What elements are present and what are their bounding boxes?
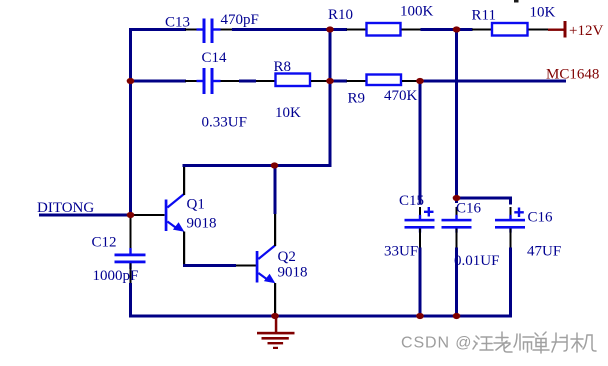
svg-text:10K: 10K bbox=[275, 105, 301, 121]
label 470pF bbox=[221, 12, 259, 28]
wire Q2 emitter pin bbox=[274, 283, 276, 315]
wire MC1648 net navy segment bbox=[417, 80, 566, 83]
wire collector rail H3 bbox=[183, 164, 332, 167]
wire top rail mid navy segment bbox=[232, 28, 347, 31]
label 10K of R11 bbox=[530, 5, 556, 21]
wire V5 vertical upper bbox=[509, 197, 512, 205]
junction dot V3-H1 bbox=[453, 26, 461, 32]
capacitor C14 bbox=[197, 68, 221, 94]
wire C13 right pin bbox=[221, 29, 233, 31]
wire Q1 base pin bbox=[132, 214, 165, 216]
wire V4 vertical lower bbox=[419, 248, 422, 318]
wire Q2 collector navy segment bbox=[274, 166, 277, 214]
wire top rail left navy segment bbox=[129, 28, 186, 31]
label MC1648 bbox=[546, 67, 599, 83]
wire bottom bus bbox=[129, 315, 512, 318]
label R8 bbox=[274, 59, 292, 75]
transistor Q1 bbox=[165, 194, 185, 232]
wire C13 left pin bbox=[185, 29, 197, 31]
svg-text:CSDN @: CSDN @ bbox=[401, 335, 472, 352]
wire C15 top pin bbox=[419, 207, 421, 216]
svg-text:10K: 10K bbox=[530, 5, 556, 21]
junction dot Q2 collector rail bbox=[271, 162, 279, 168]
svg-text:470K: 470K bbox=[384, 88, 418, 104]
junction dot bus-V3 bbox=[453, 313, 461, 319]
label C15 bbox=[399, 193, 424, 209]
label C16 of 0.01UF bbox=[456, 201, 482, 217]
svg-text:0.33UF: 0.33UF bbox=[202, 115, 247, 131]
svg-text:47UF: 47UF bbox=[527, 244, 561, 260]
wire top rail right navy segment bbox=[421, 28, 473, 31]
label 0.01UF bbox=[454, 253, 499, 269]
wire second rail left navy segment bbox=[129, 80, 186, 83]
junction dot R9-V4 bbox=[416, 78, 424, 84]
wire C12 top pin bbox=[130, 216, 132, 254]
capacitor C12 bbox=[115, 248, 146, 269]
resistor R8 bbox=[276, 74, 311, 87]
wire V3 vertical lower bbox=[455, 248, 458, 318]
wire emitter to Q2 base navy bbox=[183, 264, 236, 267]
wire R8 left pin bbox=[256, 80, 275, 82]
wire R11 right pin bbox=[529, 29, 549, 31]
resistor R11 bbox=[492, 23, 528, 36]
label 33UF bbox=[384, 244, 418, 260]
svg-text:R11: R11 bbox=[472, 8, 496, 24]
wire C12 bottom pin bbox=[130, 263, 132, 283]
resistor R9 bbox=[367, 75, 402, 86]
wire DITONG net bbox=[39, 214, 130, 217]
wire R11 left pin bbox=[472, 29, 492, 31]
junction dot V1-DITONG bbox=[127, 212, 135, 218]
wire second rail navy segment b bbox=[327, 80, 347, 83]
wire V5 vertical lower bbox=[509, 248, 512, 318]
junction dot bus-V4 bbox=[416, 313, 424, 319]
svg-text:MC1648: MC1648 bbox=[546, 67, 599, 83]
svg-text:C16: C16 bbox=[456, 201, 482, 217]
wire Q2 collector pin bbox=[274, 214, 276, 246]
svg-text:+12V: +12V bbox=[569, 23, 603, 39]
label 100K bbox=[400, 4, 434, 20]
junction dot bus-Q2 emitter bbox=[271, 313, 279, 319]
label R9 bbox=[348, 91, 366, 107]
svg-text:33UF: 33UF bbox=[384, 244, 418, 260]
label R10 bbox=[328, 7, 353, 23]
label Q1 bbox=[187, 197, 205, 213]
capacitor C16 47UF bbox=[495, 208, 525, 233]
wire Q1 collector pin bbox=[183, 167, 185, 195]
resistor R10 bbox=[367, 23, 401, 36]
junction dot V2-H2 bbox=[326, 78, 334, 84]
wire C15 bottom pin bbox=[419, 229, 421, 248]
wire Q2 base pin bbox=[236, 265, 256, 267]
capacitor C15 bbox=[405, 207, 435, 233]
wire R10 right pin bbox=[402, 29, 421, 31]
wire C16 top pin bbox=[456, 207, 458, 216]
svg-text:C13: C13 bbox=[165, 15, 190, 31]
svg-text:R9: R9 bbox=[348, 91, 366, 107]
wire V3 vertical upper bbox=[455, 28, 458, 203]
wire Q1 emitter pin bbox=[183, 232, 185, 267]
wire C16b top pin bbox=[510, 207, 512, 216]
wire R9 right pin bbox=[402, 80, 417, 82]
svg-text:100K: 100K bbox=[400, 4, 434, 20]
svg-text:C14: C14 bbox=[202, 50, 228, 66]
junction dot V1-H2 bbox=[127, 78, 135, 84]
label C16 of 47UF bbox=[528, 210, 554, 226]
label C12 bbox=[92, 235, 117, 251]
wire C16 bottom pin bbox=[456, 229, 458, 248]
label DITONG bbox=[37, 200, 94, 216]
power +12V symbol bbox=[548, 21, 567, 38]
svg-text:9018: 9018 bbox=[278, 265, 308, 281]
label Q2 bbox=[278, 249, 296, 265]
label C13 bbox=[165, 15, 190, 31]
label C14 bbox=[202, 50, 228, 66]
label 47UF bbox=[527, 244, 561, 260]
wire V2 vertical from top rail bbox=[329, 28, 332, 167]
junction dot V2-H1 bbox=[326, 26, 334, 32]
svg-text:C16: C16 bbox=[528, 210, 554, 226]
ground bbox=[257, 318, 295, 350]
watermark CSDN bbox=[401, 335, 472, 352]
wire C14 left pin bbox=[185, 80, 197, 82]
svg-text:R8: R8 bbox=[274, 59, 292, 75]
label R11 bbox=[472, 8, 496, 24]
wire left bus vertical V1 upper bbox=[129, 28, 132, 216]
svg-text:R10: R10 bbox=[328, 7, 353, 23]
wire second rail navy segment a bbox=[239, 80, 256, 83]
label 9018 of Q2 bbox=[278, 265, 308, 281]
wire C16b bottom pin bbox=[510, 229, 512, 248]
wire V4 vertical upper bbox=[419, 80, 422, 204]
capacitor C13 bbox=[197, 19, 221, 44]
wire C14 right pin bbox=[221, 80, 240, 82]
svg-text:C15: C15 bbox=[399, 193, 424, 209]
junction dot V3-H6 bbox=[453, 195, 461, 201]
stray mark top edge bbox=[514, 0, 519, 3]
wire H6 horizontal to 47UF branch bbox=[455, 197, 512, 200]
label 0.33UF bbox=[202, 115, 247, 131]
label 10K of R8 bbox=[275, 105, 301, 121]
transistor Q2 bbox=[256, 246, 276, 284]
label +12V bbox=[569, 23, 603, 39]
svg-text:Q2: Q2 bbox=[278, 249, 296, 265]
wire left bus vertical V1 lower bbox=[129, 283, 132, 318]
label 9018 of Q1 bbox=[187, 216, 217, 232]
svg-text:1000pF: 1000pF bbox=[93, 268, 139, 284]
watermark CJK strokes bbox=[473, 332, 596, 353]
wire R9 left pin bbox=[347, 80, 366, 82]
svg-text:470pF: 470pF bbox=[221, 12, 259, 28]
wire R8 right pin bbox=[311, 80, 327, 82]
label 1000pF bbox=[93, 268, 139, 284]
svg-text:Q1: Q1 bbox=[187, 197, 205, 213]
svg-text:0.01UF: 0.01UF bbox=[454, 253, 499, 269]
svg-text:9018: 9018 bbox=[187, 216, 217, 232]
capacitor C16 0.01UF bbox=[442, 215, 472, 233]
wire R10 left pin bbox=[347, 29, 366, 31]
svg-text:C12: C12 bbox=[92, 235, 117, 251]
label 470K bbox=[384, 88, 418, 104]
svg-text:DITONG: DITONG bbox=[37, 200, 94, 216]
